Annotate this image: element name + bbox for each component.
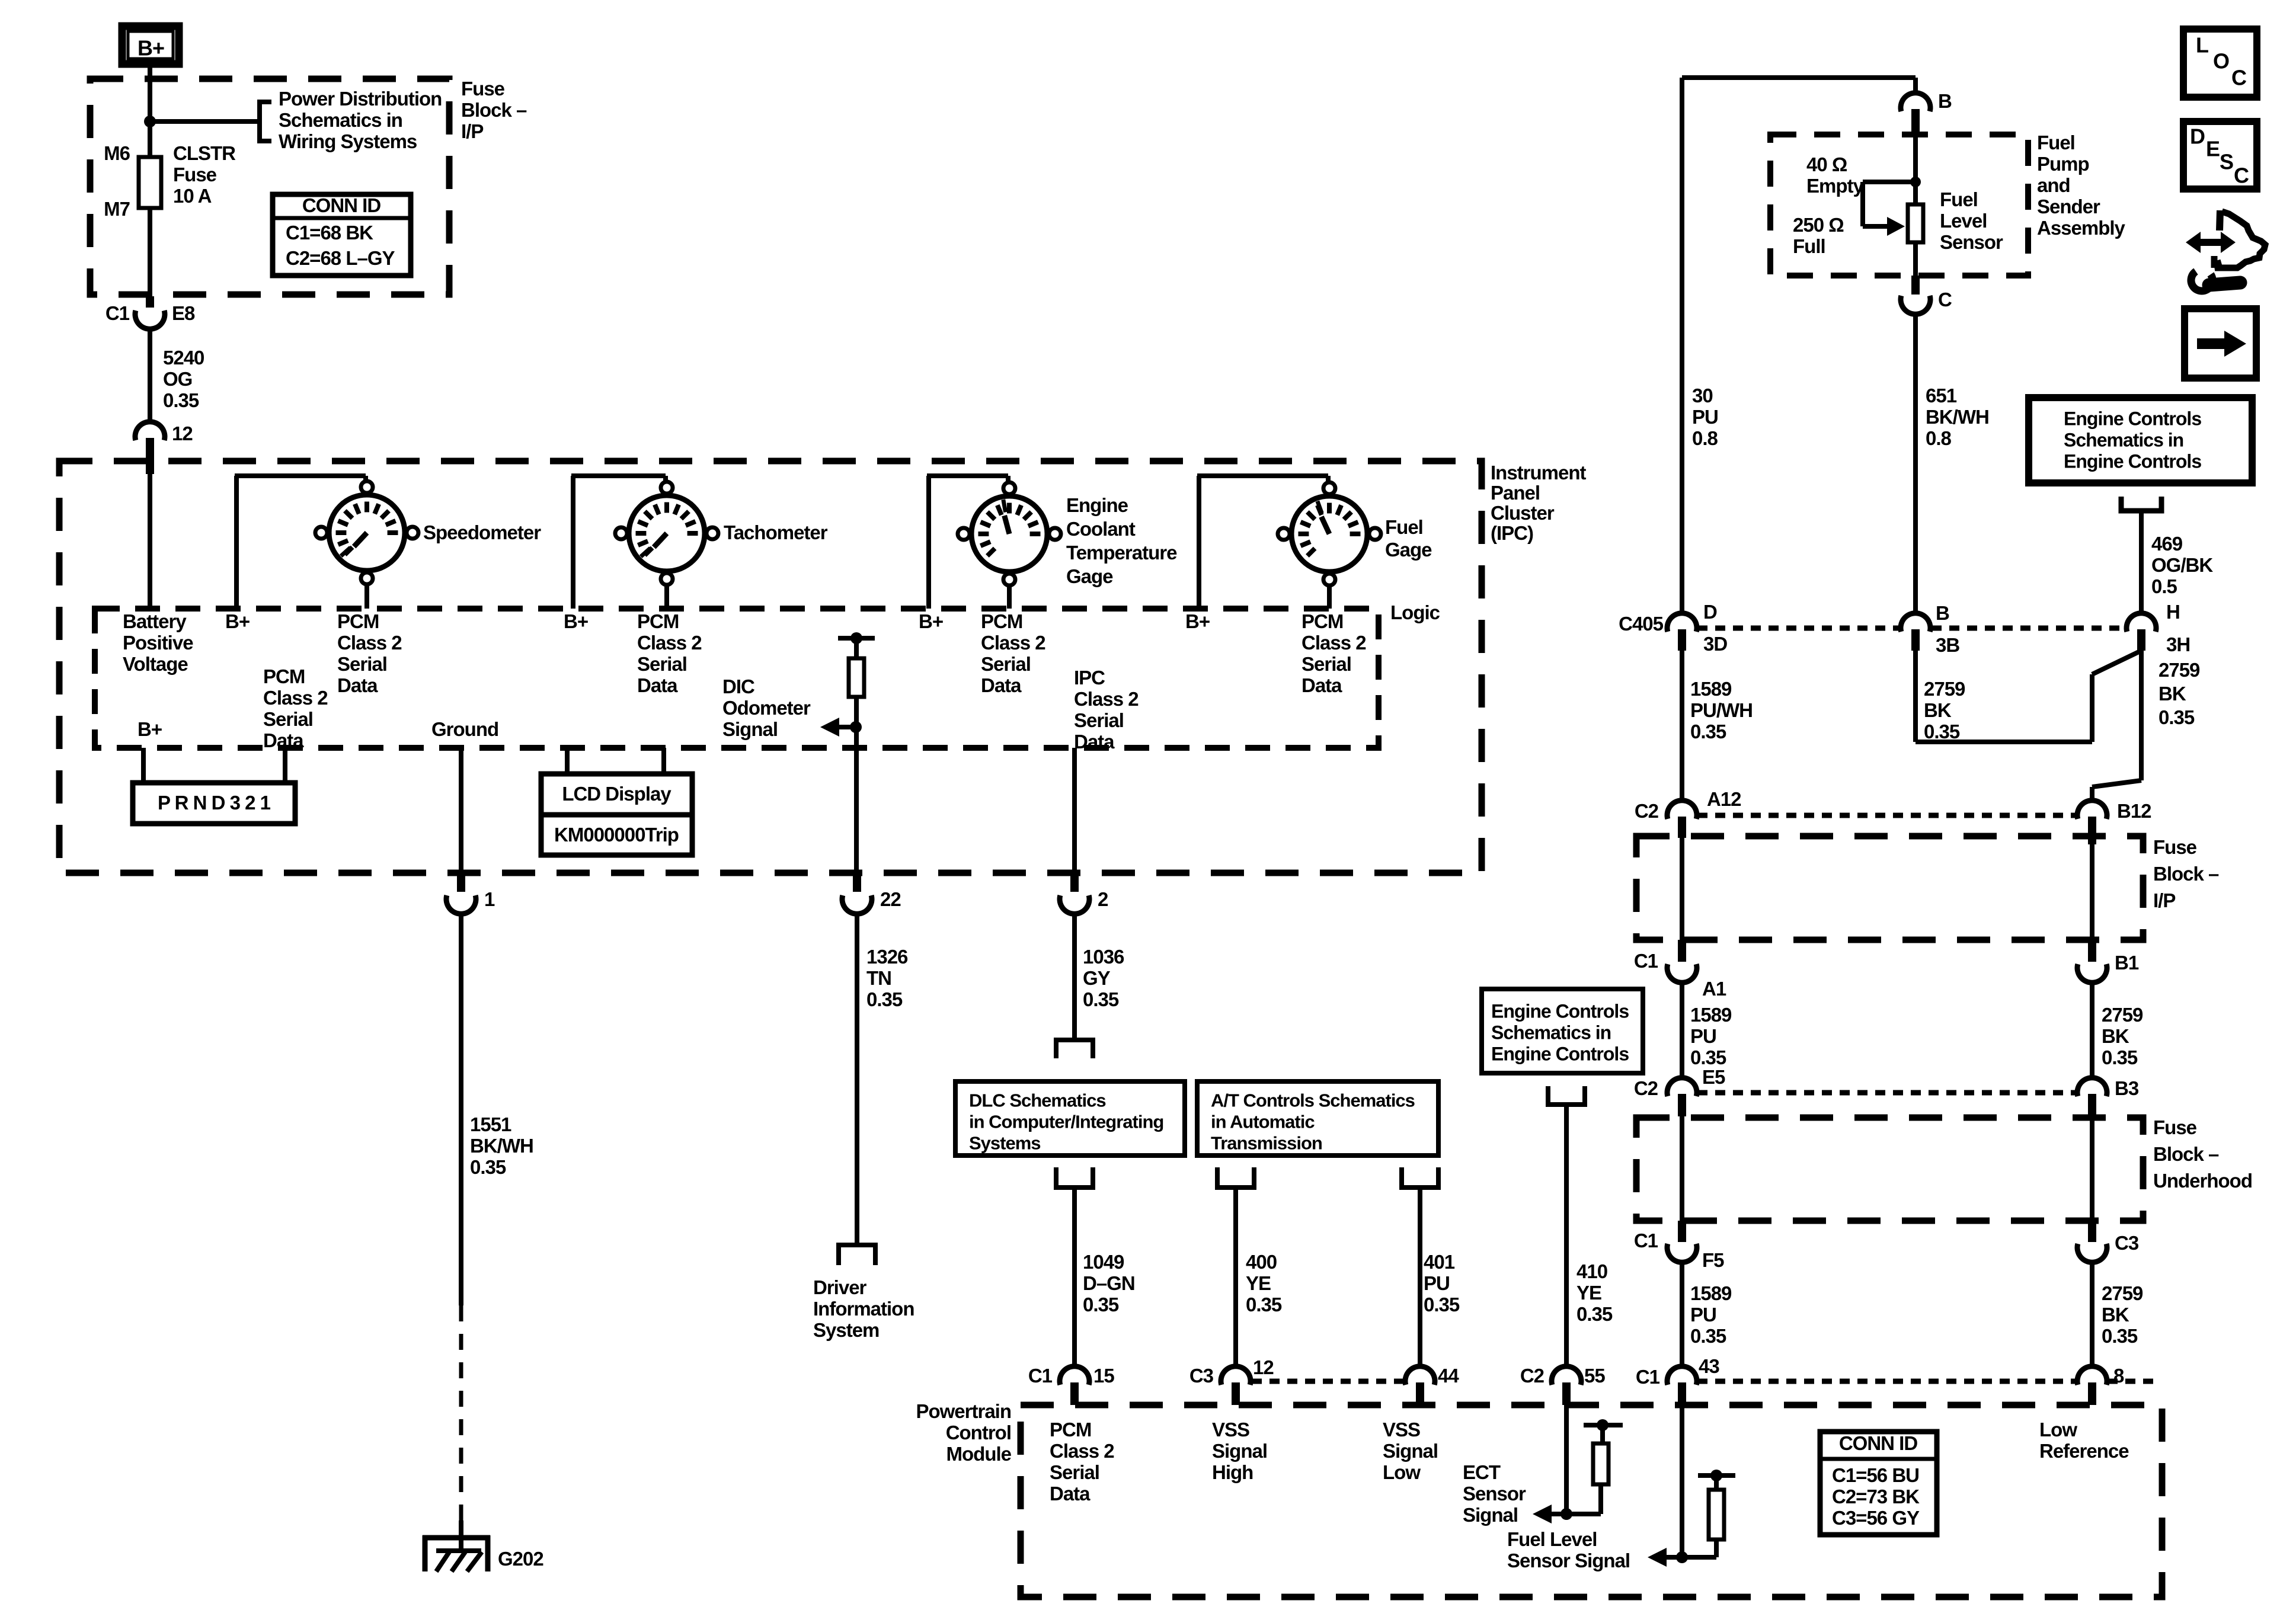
svg-text:C1: C1 <box>1634 1230 1658 1251</box>
svg-text:Serial: Serial <box>1050 1461 1099 1483</box>
ground wire from IPC <box>459 748 463 873</box>
svg-text:B+: B+ <box>137 718 162 740</box>
svg-text:Serial: Serial <box>263 708 313 730</box>
dashed connector line A12 to B12 <box>1697 813 2077 818</box>
wire 410 YE 0.35 <box>1564 1105 1569 1367</box>
wire fuel gage data pin <box>1327 585 1332 609</box>
LCD Display box <box>541 774 692 855</box>
engine coolant temperature gage <box>971 496 1047 572</box>
svg-text:Empty: Empty <box>1806 175 1865 197</box>
svg-text:DIC: DIC <box>722 676 754 697</box>
svg-text:Full: Full <box>1793 235 1825 257</box>
svg-text:2759: 2759 <box>2159 659 2200 681</box>
svg-text:LCD Display: LCD Display <box>562 783 671 805</box>
svg-text:2759: 2759 <box>2102 1282 2143 1304</box>
svg-text:BK: BK <box>2102 1025 2129 1047</box>
svg-text:D: D <box>2190 124 2205 148</box>
speedometer gauge <box>329 495 405 571</box>
DLC Schematics box <box>955 1081 1185 1156</box>
svg-text:C3: C3 <box>1189 1365 1214 1387</box>
svg-text:Data: Data <box>1074 731 1115 753</box>
svg-text:ECT: ECT <box>1463 1461 1501 1483</box>
DIC odometer resistor <box>849 658 864 697</box>
svg-text:Data: Data <box>637 674 678 696</box>
wire fuel level sensor top <box>1913 136 1918 204</box>
wire C405 D down to A12 <box>1680 651 1684 801</box>
svg-text:Engine Controls: Engine Controls <box>2064 450 2201 472</box>
CONN ID table (fuse block I/P) <box>273 194 411 276</box>
svg-text:Cluster: Cluster <box>1491 502 1555 524</box>
connector C3 (right) <box>2077 1244 2107 1262</box>
wire 3B loop to H <box>1913 651 1918 742</box>
svg-text:System: System <box>813 1319 879 1341</box>
svg-text:B12: B12 <box>2117 800 2151 822</box>
svg-text:C3=56 GY: C3=56 GY <box>1832 1507 1920 1529</box>
svg-text:Level: Level <box>1940 210 1987 232</box>
dashed connector line B to H <box>1932 626 2126 631</box>
connector 22 (IPC) <box>853 873 861 892</box>
svg-text:CLSTR: CLSTR <box>173 142 236 164</box>
wire tachometer data pin <box>664 585 669 609</box>
svg-text:TN: TN <box>866 967 891 989</box>
svg-text:Sensor Signal: Sensor Signal <box>1507 1550 1630 1571</box>
svg-text:0.35: 0.35 <box>1690 721 1726 742</box>
svg-text:1551: 1551 <box>470 1113 511 1135</box>
svg-text:PU: PU <box>1690 1025 1716 1047</box>
wire 1589 PU 0.35 (F5-43) <box>1680 1262 1684 1367</box>
fuel level sensor resistor <box>1908 204 1923 242</box>
ECT pullup tee bar <box>1584 1423 1623 1427</box>
off-page bracket to Power Distribution <box>260 100 271 143</box>
connector row C405 D <box>1667 613 1697 632</box>
connector C1 F5 <box>1667 1244 1697 1262</box>
wire 469 OG/BK 0.5 <box>2139 511 2144 614</box>
svg-text:B+: B+ <box>137 36 164 60</box>
svg-text:BK: BK <box>1924 699 1952 721</box>
wire fuel gage B+ feed <box>1197 476 1201 609</box>
svg-text:0.35: 0.35 <box>1690 1046 1726 1068</box>
svg-text:C3: C3 <box>2115 1232 2139 1254</box>
fuel gage <box>1291 496 1367 572</box>
svg-text:Assembly: Assembly <box>2037 217 2126 239</box>
svg-text:B+: B+ <box>919 610 943 632</box>
connector 1 (IPC ground) <box>446 895 476 914</box>
connector 44 (PCM) <box>1405 1366 1435 1385</box>
bracket out of engine controls top box <box>2121 497 2161 511</box>
bracket into DLC schematics <box>1056 1040 1093 1058</box>
svg-text:3B: 3B <box>1936 634 1959 656</box>
svg-text:10 A: 10 A <box>173 185 212 207</box>
LOC icon box <box>2183 29 2257 97</box>
junction fuel level sensor wiper <box>1910 177 1921 187</box>
svg-text:A12: A12 <box>1707 788 1741 810</box>
bracket VSS low out of A/T box <box>1402 1167 1438 1188</box>
connector C2 55 (PCM) <box>1552 1366 1581 1385</box>
svg-text:BK/WH: BK/WH <box>1926 406 1989 428</box>
svg-text:Powertrain: Powertrain <box>916 1400 1011 1422</box>
connector B1 <box>2077 964 2107 982</box>
fuse block underhood dashed box <box>1636 1118 2143 1221</box>
svg-text:651: 651 <box>1926 385 1957 406</box>
svg-text:Schematics in: Schematics in <box>2064 429 2183 450</box>
svg-text:PU: PU <box>1690 1304 1716 1326</box>
svg-text:Signal: Signal <box>1383 1440 1438 1462</box>
svg-text:C: C <box>1938 289 1952 311</box>
svg-text:C2=68 L–GY: C2=68 L–GY <box>286 247 395 269</box>
svg-text:Class 2: Class 2 <box>263 687 328 709</box>
junction node in fuse block <box>144 116 156 127</box>
svg-text:30: 30 <box>1692 385 1713 406</box>
svg-text:3D: 3D <box>1703 633 1727 655</box>
svg-text:IPC: IPC <box>1074 667 1105 689</box>
svg-text:M7: M7 <box>104 198 130 220</box>
svg-text:M6: M6 <box>104 142 130 164</box>
svg-text:1: 1 <box>484 888 495 910</box>
svg-text:0.8: 0.8 <box>1692 427 1718 449</box>
dashed connector line 43 to 8 <box>1697 1379 2077 1384</box>
svg-text:C2=73 BK: C2=73 BK <box>1832 1486 1920 1507</box>
svg-text:in Automatic: in Automatic <box>1211 1112 1315 1132</box>
svg-text:1589: 1589 <box>1690 1004 1732 1026</box>
svg-text:Signal: Signal <box>1212 1440 1267 1462</box>
top feed wire to fuel pump <box>1682 75 1916 80</box>
svg-text:Speedometer: Speedometer <box>423 521 541 543</box>
svg-text:B+: B+ <box>1185 610 1210 632</box>
svg-text:P R N D 3 2 1: P R N D 3 2 1 <box>158 792 271 814</box>
svg-text:and: and <box>2037 174 2070 196</box>
svg-text:1326: 1326 <box>866 946 908 968</box>
connector 12 (IPC C1) <box>135 422 165 440</box>
svg-text:5240: 5240 <box>163 347 204 369</box>
svg-text:0.35: 0.35 <box>1924 721 1960 742</box>
wiper branch <box>1863 180 1916 184</box>
wire 2759 BK 0.35 (C3-8) <box>2090 1262 2094 1367</box>
wire coolant gauge B+ feed <box>926 476 931 609</box>
svg-text:VSS: VSS <box>1212 1419 1249 1441</box>
svg-text:Low: Low <box>2039 1419 2077 1441</box>
svg-text:Systems: Systems <box>969 1133 1041 1154</box>
svg-text:Data: Data <box>337 674 378 696</box>
svg-text:Instrument: Instrument <box>1491 462 1587 484</box>
svg-text:Battery: Battery <box>123 610 187 632</box>
svg-text:B1: B1 <box>2115 952 2139 974</box>
svg-text:Fuel Level: Fuel Level <box>1507 1528 1597 1550</box>
wire speedometer data pin <box>364 584 369 609</box>
bracket VSS high out of A/T box <box>1217 1167 1254 1188</box>
wire 5240 OG 0.35 <box>148 329 152 423</box>
svg-text:VSS: VSS <box>1383 1419 1420 1441</box>
svg-text:Wiring Systems: Wiring Systems <box>279 130 417 152</box>
svg-text:C1: C1 <box>1028 1365 1053 1387</box>
svg-text:Gage: Gage <box>1066 565 1113 587</box>
wire 30 PU 0.8 down <box>1680 78 1684 614</box>
svg-text:Signal: Signal <box>1463 1504 1518 1526</box>
wire B12 through fuse block <box>2090 844 2094 940</box>
svg-text:Serial: Serial <box>337 653 387 675</box>
svg-text:Serial: Serial <box>1302 653 1351 675</box>
svg-text:400: 400 <box>1246 1251 1277 1273</box>
svg-text:Sensor: Sensor <box>1940 231 2003 253</box>
fuse block I/P dashed box (top left) <box>90 79 449 295</box>
fuel level pullup tee bar <box>1698 1473 1735 1478</box>
svg-text:PCM: PCM <box>263 665 305 687</box>
svg-text:Fuse: Fuse <box>2153 836 2197 858</box>
A/T Controls Schematics box <box>1197 1081 1438 1156</box>
wire B+ to fuse <box>148 64 152 157</box>
svg-text:3H: 3H <box>2166 633 2190 655</box>
connector C1 43 (PCM) <box>1667 1366 1697 1385</box>
svg-text:F5: F5 <box>1702 1249 1724 1271</box>
svg-text:Data: Data <box>981 674 1022 696</box>
DESC icon box <box>2183 121 2257 189</box>
svg-text:G202: G202 <box>498 1548 543 1570</box>
svg-text:Information: Information <box>813 1298 914 1320</box>
svg-text:Voltage: Voltage <box>123 653 188 675</box>
svg-text:0.35: 0.35 <box>866 988 903 1010</box>
svg-text:43: 43 <box>1699 1355 1719 1377</box>
svg-text:Engine Controls: Engine Controls <box>2064 408 2201 429</box>
wire to connector C <box>1913 242 1918 276</box>
connector C1 E8 <box>135 311 165 329</box>
svg-text:S: S <box>2220 149 2233 174</box>
svg-text:E8: E8 <box>172 302 195 324</box>
svg-text:A/T Controls Schematics: A/T Controls Schematics <box>1211 1090 1415 1111</box>
svg-text:Fuel: Fuel <box>1385 516 1423 538</box>
svg-text:Serial: Serial <box>637 653 687 675</box>
connector C fuel pump <box>1901 296 1930 314</box>
svg-text:0.35: 0.35 <box>163 389 199 411</box>
svg-text:PU: PU <box>1424 1272 1450 1294</box>
svg-text:Reference: Reference <box>2039 1440 2129 1462</box>
svg-text:PCM: PCM <box>1050 1419 1091 1441</box>
bracket out of engine controls middle box <box>1548 1086 1585 1105</box>
svg-text:401: 401 <box>1424 1251 1455 1273</box>
tachometer gauge <box>629 495 705 571</box>
svg-text:I/P: I/P <box>461 120 483 142</box>
svg-text:0.35: 0.35 <box>1246 1294 1282 1315</box>
dashed ground wire segment <box>459 1305 463 1521</box>
svg-text:0.35: 0.35 <box>1690 1325 1726 1347</box>
DIC odometer signal tee bar <box>838 636 875 641</box>
Powertrain Control Module dashed box <box>1021 1405 2162 1597</box>
wire coolant gauge data pin <box>1007 585 1012 609</box>
svg-text:2: 2 <box>1098 888 1108 910</box>
svg-text:PU/WH: PU/WH <box>1690 699 1753 721</box>
svg-text:PCM: PCM <box>637 610 679 632</box>
svg-text:Sender: Sender <box>2037 196 2100 217</box>
svg-text:H: H <box>2166 601 2180 623</box>
Engine Controls Schematics box (middle) <box>1482 989 1643 1073</box>
svg-text:Data: Data <box>1050 1483 1091 1505</box>
svg-text:Temperature: Temperature <box>1066 542 1177 564</box>
wire tachometer B+ feed <box>571 476 575 609</box>
svg-text:CONN ID: CONN ID <box>1839 1432 1918 1454</box>
svg-text:High: High <box>1212 1461 1253 1483</box>
LCD display wires <box>565 748 570 774</box>
svg-text:2759: 2759 <box>2102 1004 2143 1026</box>
svg-text:BK: BK <box>2102 1304 2129 1326</box>
wire fuel level sensor signal inside PCM <box>1680 1405 1684 1557</box>
wire speedometer B+ feed <box>234 476 239 609</box>
svg-text:Panel: Panel <box>1491 482 1540 504</box>
svg-text:YE: YE <box>1576 1282 1601 1304</box>
IPC logic inner dashed box <box>95 609 1379 748</box>
svg-text:22: 22 <box>880 888 901 910</box>
junction ECT sensor signal <box>1560 1508 1572 1520</box>
junction fuel level sensor signal <box>1676 1551 1688 1563</box>
wire E5 through underhood block <box>1680 1116 1684 1221</box>
wire 1551 BK/WH 0.35 <box>459 913 463 1305</box>
svg-text:C1=56 BU: C1=56 BU <box>1832 1464 1919 1486</box>
svg-text:0.5: 0.5 <box>2151 575 2177 597</box>
svg-text:Odometer: Odometer <box>722 697 811 719</box>
svg-text:0.8: 0.8 <box>1926 427 1952 449</box>
svg-text:BK: BK <box>2159 683 2186 705</box>
connector B IPC harness <box>1901 613 1930 632</box>
svg-text:GY: GY <box>1083 967 1111 989</box>
svg-text:Engine: Engine <box>1066 494 1128 516</box>
svg-text:Fuel: Fuel <box>1940 188 1978 210</box>
Instrument Panel Cluster dashed box <box>59 461 1482 873</box>
svg-text:C1: C1 <box>1634 950 1658 972</box>
svg-text:1049: 1049 <box>1083 1251 1124 1273</box>
svg-text:Sensor: Sensor <box>1463 1483 1526 1505</box>
connector B12 <box>2077 801 2107 819</box>
svg-text:1589: 1589 <box>1690 1282 1732 1304</box>
svg-text:410: 410 <box>1576 1260 1607 1282</box>
svg-text:E: E <box>2206 136 2220 161</box>
svg-text:0.35: 0.35 <box>1424 1294 1460 1315</box>
svg-text:Tachometer: Tachometer <box>724 521 828 543</box>
wire fuse to connector C1 E8 <box>148 208 152 296</box>
wire 651 BK/WH 0.8 <box>1913 313 1918 614</box>
svg-text:OG/BK: OG/BK <box>2151 554 2213 576</box>
svg-text:0.35: 0.35 <box>1083 1294 1119 1315</box>
svg-text:44: 44 <box>1438 1365 1459 1387</box>
dashed connector line D to B <box>1697 626 1900 631</box>
svg-text:0.35: 0.35 <box>2159 706 2195 728</box>
svg-text:0.35: 0.35 <box>1576 1303 1613 1325</box>
connector C1 15 (PCM) <box>1060 1366 1089 1385</box>
svg-text:CONN ID: CONN ID <box>302 194 381 216</box>
svg-text:BK/WH: BK/WH <box>470 1135 533 1157</box>
wire H down to B12 <box>2139 651 2144 780</box>
wire 1049 D-GN 0.35 <box>1072 1188 1077 1367</box>
connector C3 12 (PCM) <box>1221 1366 1251 1385</box>
fuel pump and sender assembly dashed box <box>1770 135 2028 276</box>
bracket Driver Information System <box>839 1245 875 1265</box>
svg-text:C2: C2 <box>1520 1365 1544 1387</box>
svg-text:Schematics in: Schematics in <box>279 109 402 131</box>
svg-text:Block –: Block – <box>2153 863 2219 885</box>
wire 401 PU 0.35 <box>1418 1188 1422 1367</box>
svg-text:OG: OG <box>163 368 192 390</box>
wire B3 through underhood block <box>2090 1116 2094 1221</box>
dashed connector line 12 to 44 <box>1252 1379 1405 1384</box>
svg-text:B3: B3 <box>2115 1077 2139 1099</box>
arrow icon box <box>2185 309 2256 378</box>
svg-text:Logic: Logic <box>1390 601 1440 623</box>
svg-text:A1: A1 <box>1702 978 1726 1000</box>
svg-text:B: B <box>1938 90 1952 112</box>
svg-text:PCM: PCM <box>1302 610 1343 632</box>
svg-text:C1=68 BK: C1=68 BK <box>286 222 373 244</box>
connector 2 (IPC) <box>1060 895 1089 914</box>
svg-text:Fuse: Fuse <box>173 164 217 185</box>
svg-text:Class 2: Class 2 <box>1074 688 1139 710</box>
svg-text:Fuse: Fuse <box>2153 1116 2197 1138</box>
svg-text:YE: YE <box>1246 1272 1271 1294</box>
svg-text:Signal: Signal <box>722 718 778 740</box>
svg-text:D–GN: D–GN <box>1083 1272 1135 1294</box>
svg-text:Power Distribution: Power Distribution <box>279 88 442 110</box>
wire IPC class 2 serial data down <box>1072 748 1077 873</box>
svg-text:C2: C2 <box>1635 800 1659 822</box>
svg-text:DLC Schematics: DLC Schematics <box>969 1090 1106 1111</box>
svg-text:Pump: Pump <box>2037 153 2089 175</box>
wire DIC odometer signal <box>854 697 859 873</box>
svg-text:PCM: PCM <box>337 610 379 632</box>
svg-text:15: 15 <box>1093 1365 1114 1387</box>
svg-text:0.35: 0.35 <box>1083 988 1119 1010</box>
svg-text:PU: PU <box>1692 406 1718 428</box>
svg-text:C: C <box>2234 163 2249 187</box>
svg-text:(IPC): (IPC) <box>1491 522 1533 544</box>
connector C2 E5 <box>1667 1078 1697 1096</box>
svg-text:2759: 2759 <box>1924 678 1965 700</box>
svg-text:I/P: I/P <box>2153 889 2175 911</box>
wire 1036 GY 0.35 <box>1072 913 1077 1040</box>
ECT pullup resistor <box>1593 1443 1609 1484</box>
wire 400 YE 0.35 <box>1233 1188 1238 1367</box>
connector C2 A12 <box>1667 801 1697 819</box>
dashed connector line right of 8 <box>2108 1379 2159 1384</box>
svg-text:55: 55 <box>1584 1365 1605 1387</box>
svg-text:12: 12 <box>1253 1356 1274 1378</box>
svg-text:Control: Control <box>946 1422 1011 1443</box>
svg-text:Engine Controls: Engine Controls <box>1491 1043 1629 1064</box>
dashed connector line E5 to B3 <box>1697 1090 2077 1096</box>
Engine Controls Schematics box (top right) <box>2029 398 2252 483</box>
svg-text:40 Ω: 40 Ω <box>1806 153 1847 175</box>
svg-text:Transmission: Transmission <box>1211 1133 1322 1154</box>
svg-text:0.35: 0.35 <box>470 1156 506 1178</box>
svg-text:Data: Data <box>1302 674 1342 696</box>
svg-text:Underhood: Underhood <box>2153 1170 2252 1192</box>
svg-text:Module: Module <box>946 1443 1012 1465</box>
svg-text:C1: C1 <box>105 302 130 324</box>
svg-text:E5: E5 <box>1702 1066 1725 1088</box>
wire branch to power distribution tap <box>150 119 260 124</box>
svg-text:B+: B+ <box>564 610 588 632</box>
svg-text:Class 2: Class 2 <box>637 632 702 654</box>
vehicle service icon <box>2186 210 2265 291</box>
svg-text:Class 2: Class 2 <box>981 632 1045 654</box>
svg-text:469: 469 <box>2151 533 2183 555</box>
fuse CLSTR 10A <box>139 157 161 208</box>
ground symbol G202 <box>423 1535 490 1571</box>
svg-text:PCM: PCM <box>981 610 1022 632</box>
connector 8 (PCM) <box>2077 1366 2107 1385</box>
wire 1589 PU 0.35 (A1-E5) <box>1680 982 1684 1078</box>
CONN ID table (PCM) <box>1820 1432 1937 1535</box>
svg-text:Class 2: Class 2 <box>1302 632 1366 654</box>
svg-text:Fuse: Fuse <box>461 78 505 100</box>
svg-text:1036: 1036 <box>1083 946 1124 968</box>
svg-text:C2: C2 <box>1634 1077 1658 1099</box>
svg-text:0.35: 0.35 <box>2102 1046 2138 1068</box>
wire 1326 TN 0.35 <box>855 913 859 1245</box>
